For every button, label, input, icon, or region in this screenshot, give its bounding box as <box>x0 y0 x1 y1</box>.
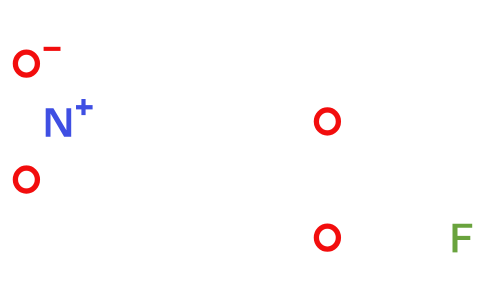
atom N1 (nitro N, positive) <box>46 108 71 137</box>
atom O2 (nitro O) <box>15 168 37 191</box>
atom O1 (nitro O, negative) <box>15 52 37 75</box>
atom F1 (fluorine) <box>453 224 473 253</box>
charge plus on N1 <box>76 99 93 115</box>
charge minus on O1 <box>44 47 61 51</box>
atom O3 (dioxolane ring O top) <box>316 110 338 133</box>
atom O4 (dioxolane ring O bottom) <box>316 226 338 249</box>
